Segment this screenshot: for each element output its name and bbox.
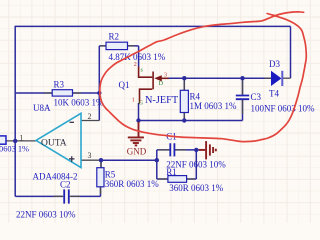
pin R1 leads — [158, 178, 195, 180]
svg-text:ADA4084-2: ADA4084-2 — [33, 171, 78, 181]
svg-text:G: G — [139, 100, 144, 106]
svg-text:R4: R4 — [190, 92, 201, 102]
svg-text:D: D — [159, 81, 164, 87]
svg-text:GND: GND — [127, 146, 147, 156]
resistor R2 — [106, 42, 128, 49]
pin D3 anode lead — [265, 77, 272, 79]
wire gate to gnd row — [138, 103, 140, 121]
capacitor C2 — [64, 189, 69, 203]
pin R3 leads — [44, 92, 81, 94]
svg-text:T4: T4 — [269, 88, 279, 98]
node gnd row / R4 — [182, 118, 186, 122]
capacitor C1 — [170, 143, 174, 156]
node pin3 / C1-R1 — [155, 158, 159, 162]
op-amp pin stubs — [6, 46, 291, 197]
wire R4 bottom — [183, 113, 185, 121]
pin R2 leads — [100, 45, 134, 47]
svg-text:1: 1 — [132, 97, 135, 103]
wire pin3 stub — [81, 159, 101, 161]
pin R4 leads — [183, 81, 185, 119]
svg-text:4.87K 0603 1%: 4.87K 0603 1% — [109, 52, 166, 62]
wire right vertical to D3 — [290, 26, 292, 78]
ground GND below Q1 — [128, 122, 144, 145]
wire R5 top — [100, 160, 102, 168]
svg-text:Q1: Q1 — [119, 80, 130, 90]
svg-text:1: 1 — [20, 134, 24, 143]
node pin3 / R5 — [99, 158, 103, 162]
wire C3 top — [242, 78, 244, 95]
pin C1 leads — [158, 149, 186, 151]
wire C1 right vertical — [195, 150, 197, 179]
node R2/R3/pin2 — [97, 91, 101, 95]
pin C3 leads — [242, 81, 244, 115]
node drain / R4 — [182, 76, 186, 80]
diode D3 — [271, 71, 282, 86]
wire C1 row — [157, 149, 205, 151]
wire R3 row — [15, 92, 99, 94]
transistor Q1 N-JFET — [139, 67, 169, 104]
resistor R3 — [52, 90, 72, 96]
svg-text:U8A: U8A — [33, 103, 51, 113]
wire drain row to D3 anode — [169, 77, 272, 79]
pin C2 leads — [54, 195, 81, 197]
svg-text:R5: R5 — [105, 169, 116, 179]
wire C1 left vertical — [156, 150, 158, 179]
wire pin1 stub — [6, 140, 36, 142]
wire pin3 row — [101, 159, 157, 161]
resistor R4 — [180, 90, 188, 112]
node drain / C3 — [240, 76, 244, 80]
wire R1 row — [157, 178, 197, 180]
svg-text:3: 3 — [88, 151, 92, 160]
wire R2 row — [99, 45, 138, 47]
wire C2 left — [15, 195, 62, 197]
svg-text:22NF 0603 10%: 22NF 0603 10% — [166, 160, 226, 170]
svg-text:22NF 0603 10%: 22NF 0603 10% — [16, 209, 76, 219]
svg-text:100NF 0603 10%: 100NF 0603 10% — [251, 103, 316, 113]
svg-text:OUTA: OUTA — [41, 138, 67, 148]
ground right of C1 — [199, 141, 216, 159]
op-amp U8A ADA4084-2 — [36, 113, 81, 167]
red hand-drawn lasso annotation — [100, 12, 307, 142]
wire R2 to Q1 source — [138, 46, 140, 67]
wire C3 bottom — [242, 100, 244, 121]
svg-text:1M 0603 1%: 1M 0603 1% — [190, 101, 238, 111]
wire pin2 stub — [81, 120, 99, 122]
node C1 right / gnd — [194, 148, 198, 152]
svg-text:C3: C3 — [251, 92, 262, 102]
svg-text:R2: R2 — [109, 32, 120, 42]
svg-text:10K 0603 1%: 10K 0603 1% — [54, 98, 104, 108]
svg-text:2: 2 — [88, 112, 92, 121]
wire node vertical R2/R3/pin2 — [98, 46, 100, 121]
svg-text:360R 0603 1%: 360R 0603 1% — [169, 183, 224, 193]
node junction dots — [13, 76, 245, 162]
svg-text:R3: R3 — [54, 79, 65, 89]
resistor at left edge (partial) — [0, 136, 6, 144]
wire R5 bottom to C2 — [71, 187, 101, 197]
svg-text:360R 0603 1%: 360R 0603 1% — [105, 179, 160, 189]
wire top feedback rail — [15, 25, 290, 27]
resistor R1 — [168, 176, 187, 183]
svg-text:N-JEFT: N-JEFT — [145, 95, 179, 106]
wire R4 top — [183, 78, 185, 90]
svg-text:0603 1%: 0603 1% — [0, 144, 29, 153]
svg-text:2: 2 — [134, 62, 137, 68]
node output rail / pin1 — [13, 139, 17, 143]
wire left rail — [14, 26, 16, 197]
wire gnd row — [139, 120, 243, 122]
pin R5 leads — [100, 162, 103, 194]
node gate / gnd — [136, 118, 140, 122]
capacitor C3 — [236, 96, 249, 100]
svg-text:D3: D3 — [269, 59, 280, 69]
resistor R5 — [97, 168, 104, 187]
pin D3 cathode lead — [283, 77, 291, 79]
svg-text:3: 3 — [164, 72, 167, 78]
